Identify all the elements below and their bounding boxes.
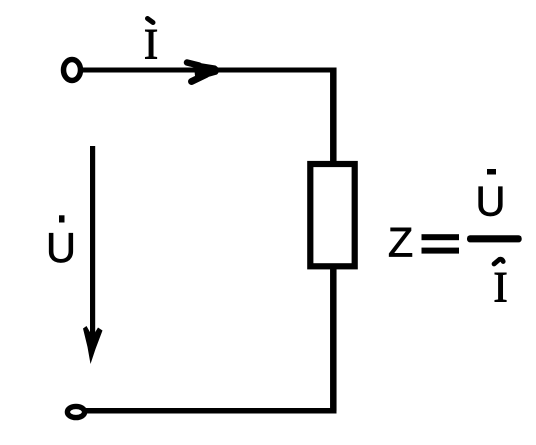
terminal T2 (bottom-left return) xyxy=(67,406,84,417)
svg-text:U: U xyxy=(46,224,76,271)
arrow (voltage U direction, pointing down) xyxy=(83,146,103,364)
svg-text:Z: Z xyxy=(388,219,413,266)
formula fraction bar xyxy=(467,235,522,242)
label U-dot (voltage) xyxy=(46,215,76,271)
wire (right vertical, box bottom to bottom corner) xyxy=(330,266,337,411)
formula denominator I-hat xyxy=(493,259,507,311)
wire (top horizontal from T1 to top-right corner) xyxy=(80,68,336,73)
impedance box Z1 xyxy=(310,164,354,266)
label I-dot (current) xyxy=(144,19,158,69)
wire (bottom horizontal to T2) xyxy=(80,408,337,414)
svg-text:I: I xyxy=(493,265,507,312)
formula equals sign xyxy=(422,234,460,253)
wire (right vertical, corner to impedance box top) xyxy=(330,68,337,167)
arrowhead (current direction on top wire) xyxy=(187,62,219,82)
svg-text:I: I xyxy=(144,22,158,69)
svg-text:U: U xyxy=(476,178,506,225)
terminal T1 (top-left input) xyxy=(64,60,81,81)
formula numerator U-dot xyxy=(476,169,506,225)
